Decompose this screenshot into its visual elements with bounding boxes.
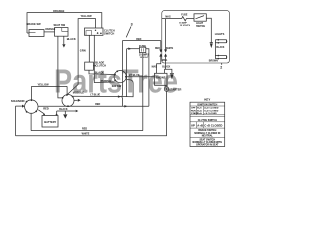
svg-text:OPERATOR IN SEAT: OPERATOR IN SEAT [196, 144, 219, 147]
svg-text:MAG: MAG [165, 15, 171, 18]
svg-text:12 VOLTS: 12 VOLTS [180, 25, 191, 27]
svg-text:MODULE: MODULE [73, 90, 85, 94]
svg-text:2: 2 [220, 65, 222, 69]
svg-text:FUSE: FUSE [139, 44, 146, 48]
svg-text:KEY: KEY [204, 98, 210, 102]
svg-text:ORANGE: ORANGE [45, 28, 56, 31]
svg-text:RED: RED [95, 103, 100, 106]
svg-text:BLACK: BLACK [162, 65, 170, 68]
svg-text:IGNITION SWITCH: IGNITION SWITCH [197, 105, 217, 107]
svg-text:SWITCH: SWITCH [196, 26, 205, 28]
svg-text:RED: RED [43, 107, 49, 111]
svg-text:BATTERY: BATTERY [44, 120, 56, 124]
svg-text:20 AMPS: 20 AMPS [139, 54, 149, 57]
svg-text:FUSE: FUSE [181, 14, 188, 16]
svg-text:CLUTCH SWITCH: CLUTCH SWITCH [198, 120, 217, 122]
svg-text:LIGHTS: LIGHTS [215, 32, 225, 36]
svg-text:SEAT SWITCH: SEAT SWITCH [199, 138, 215, 141]
svg-text:RED: RED [82, 127, 87, 130]
svg-text:YELLOW: YELLOW [38, 83, 50, 87]
svg-text:STARTER: STARTER [169, 88, 181, 92]
svg-text:MAG: MAG [162, 59, 168, 62]
svg-text:WHITE: WHITE [82, 132, 90, 135]
svg-text:A+B: A+B [197, 123, 203, 127]
svg-text:RED: RED [136, 38, 141, 41]
svg-text:LT BLUE: LT BLUE [129, 73, 140, 77]
svg-text:12 VOLT: 12 VOLT [140, 57, 149, 59]
svg-text:IGN SW: IGN SW [112, 84, 122, 88]
svg-text:C+D CLOSED: C+D CLOSED [204, 123, 222, 127]
svg-text:3: 3 [131, 22, 133, 26]
svg-text:BLACK: BLACK [95, 71, 104, 75]
svg-text:B+A: B+A [197, 109, 202, 112]
svg-text:LT BLUE: LT BLUE [90, 94, 100, 97]
svg-text:GRN: GRN [80, 49, 86, 53]
svg-text:BLACK: BLACK [216, 46, 224, 49]
svg-text:SEAT SW: SEAT SW [54, 23, 66, 27]
svg-text:SOLENOID: SOLENOID [11, 99, 25, 103]
svg-text:15 AMP: 15 AMP [179, 21, 187, 24]
svg-text:CLUTCH: CLUTCH [95, 63, 106, 67]
svg-text:PURPLE: PURPLE [101, 79, 112, 83]
svg-text:ENGINE: ENGINE [156, 77, 166, 80]
svg-text:RED: RED [155, 48, 160, 50]
svg-text:BLACK: BLACK [67, 37, 76, 41]
svg-text:BROWN: BROWN [209, 60, 218, 62]
svg-text:WHITE: WHITE [166, 48, 174, 50]
svg-text:NORMALLY CLOSED WITH: NORMALLY CLOSED WITH [193, 141, 223, 144]
svg-text:YELLOW: YELLOW [81, 14, 93, 18]
svg-text:BLACK: BLACK [59, 108, 68, 111]
svg-text:BRAKE SW: BRAKE SW [27, 22, 42, 26]
svg-text:NORMALLY CLOSED IN: NORMALLY CLOSED IN [194, 132, 220, 135]
svg-text:A+D CLOSED: A+D CLOSED [204, 107, 219, 110]
svg-text:B+A: B+A [197, 112, 202, 115]
svg-text:SWITCH: SWITCH [104, 31, 114, 35]
svg-text:+S CLOSED: +S CLOSED [204, 113, 217, 115]
svg-text:NEUTRAL: NEUTRAL [202, 134, 214, 137]
svg-text:UP: UP [191, 123, 195, 127]
svg-text:ORANGE: ORANGE [53, 9, 65, 13]
svg-text:BRAKE SWITCH: BRAKE SWITCH [198, 129, 216, 132]
svg-text:MAG: MAG [152, 65, 158, 68]
